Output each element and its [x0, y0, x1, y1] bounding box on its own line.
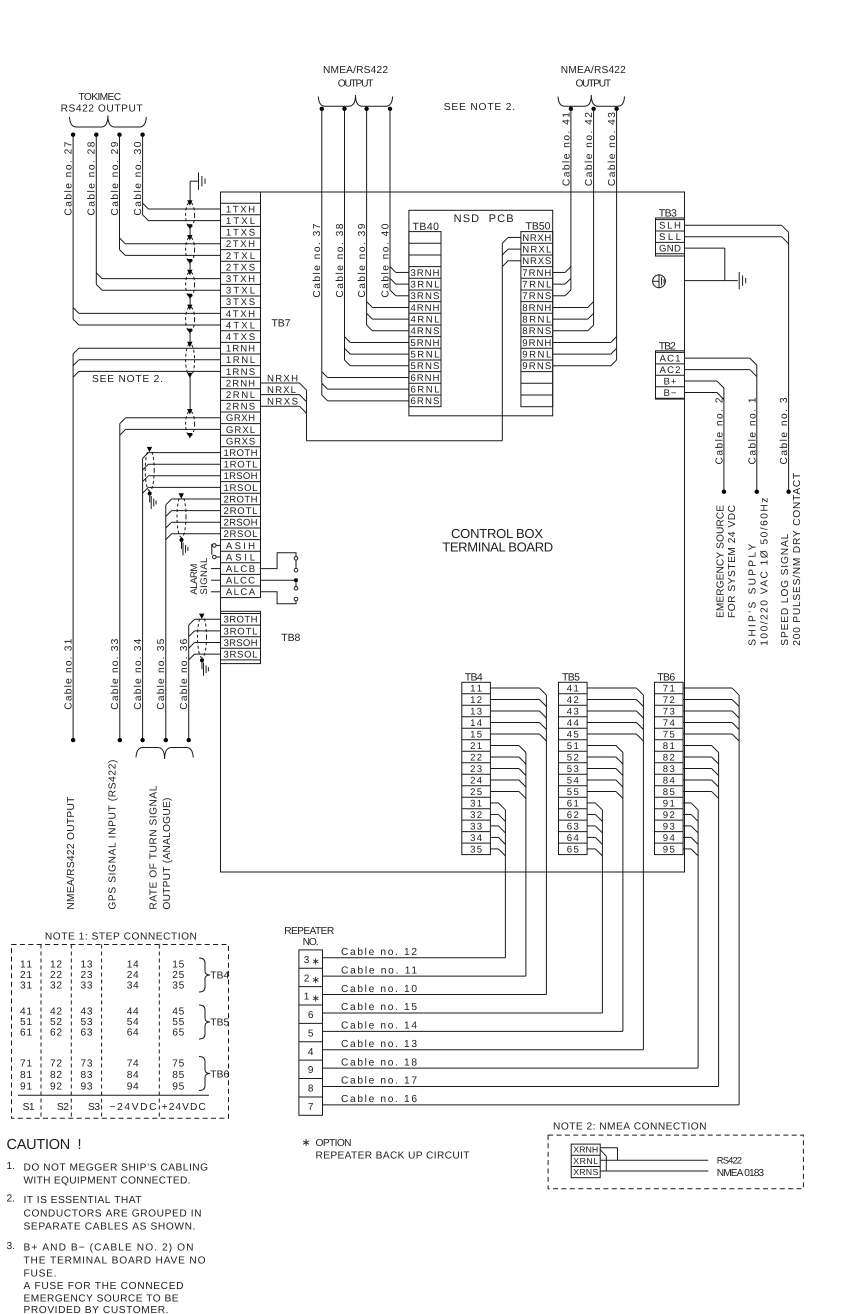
svg-text:83: 83: [81, 1070, 93, 1081]
svg-text:1RSOH: 1RSOH: [224, 471, 258, 482]
svg-text:3RSOH: 3RSOH: [224, 638, 258, 649]
svg-text:4RNL: 4RNL: [410, 315, 440, 326]
svg-text:TB5: TB5: [562, 671, 580, 683]
repeater terminal column: [299, 950, 323, 1115]
svg-text:FUSE.: FUSE.: [24, 1269, 57, 1280]
svg-text:54: 54: [127, 1017, 139, 1028]
svg-text:FOR SYSTEM 24 VDC: FOR SYSTEM 24 VDC: [727, 505, 738, 618]
svg-text:7RNL: 7RNL: [522, 280, 552, 291]
svg-text:NRXS: NRXS: [522, 256, 551, 267]
svg-text:Cable no. 31: Cable no. 31: [64, 638, 75, 709]
svg-text:6RNS: 6RNS: [410, 396, 439, 407]
svg-text:5RNL: 5RNL: [410, 350, 440, 361]
svg-text:21: 21: [20, 970, 32, 981]
terminal block TB5: [559, 682, 588, 855]
svg-text:35: 35: [172, 981, 184, 992]
cable no. 29 (to 2TXH/2TXL): [110, 133, 221, 256]
svg-text:33: 33: [470, 821, 482, 832]
terminal block TB4: [462, 682, 491, 855]
svg-text:2RNS: 2RNS: [226, 402, 255, 413]
svg-text:EMERGENCY SOURCE TO BE: EMERGENCY SOURCE TO BE: [24, 1294, 179, 1305]
svg-text:RS422: RS422: [717, 1154, 742, 1165]
svg-text:62: 62: [567, 810, 579, 821]
svg-text:9RNS: 9RNS: [522, 361, 551, 372]
svg-text:74: 74: [127, 1059, 139, 1070]
svg-text:REPEATER: REPEATER: [284, 926, 334, 937]
svg-text:XRNS: XRNS: [573, 1167, 598, 1177]
svg-text:1.: 1.: [7, 1161, 16, 1172]
svg-text:NOTE 2: NMEA CONNECTION: NOTE 2: NMEA CONNECTION: [553, 1122, 707, 1133]
cable no. 41 (to TB50 7RN group): [553, 107, 573, 296]
XRN terminal cells: [571, 1144, 600, 1178]
svg-text:XRNH: XRNH: [573, 1145, 598, 1155]
svg-text:∗: ∗: [302, 1137, 311, 1149]
svg-text:14: 14: [470, 718, 483, 729]
svg-text:55: 55: [567, 787, 579, 798]
svg-text:RATE OF TURN SIGNAL: RATE OF TURN SIGNAL: [149, 785, 160, 909]
terminal block TB2: [656, 351, 685, 399]
svg-text:95: 95: [172, 1082, 184, 1093]
svg-text:A FUSE FOR THE CONNECED: A FUSE FOR THE CONNECED: [24, 1281, 184, 1292]
svg-text:25: 25: [470, 787, 482, 798]
svg-text:54: 54: [567, 775, 580, 786]
label SPEED LOG SIGNAL 200 PULSES/NM DRY CONTACT: [780, 473, 803, 646]
svg-text:8RNL: 8RNL: [522, 315, 552, 326]
repeater cable lines with labels: [323, 947, 740, 1105]
cable no. 30 (to 1TXH/1TXL): [133, 133, 221, 221]
svg-text:1TXS: 1TXS: [226, 228, 255, 239]
svg-text:DO NOT MEGGER SHIP’S CABLING: DO NOT MEGGER SHIP’S CABLING: [24, 1163, 209, 1174]
label OPTION REPEATER BACK UP CIRCUIT: [302, 1137, 470, 1162]
svg-text:Cable no. 3: Cable no. 3: [779, 397, 790, 464]
svg-text:81: 81: [20, 1070, 32, 1081]
svg-text:32: 32: [50, 981, 62, 992]
label NMEA/RS422 OUTPUT (right): [561, 65, 626, 90]
TB5 group 41-45 wires to cable 13: [587, 688, 643, 1050]
svg-text:23: 23: [470, 764, 482, 775]
svg-text:92: 92: [663, 810, 675, 821]
ASIH/ASIL contact symbol: [212, 544, 221, 559]
svg-text:44: 44: [567, 718, 580, 729]
GND wire to ground: [685, 248, 746, 289]
svg-text:3: 3: [304, 955, 310, 966]
shield ellipses chain with drain wire: [186, 181, 195, 438]
svg-text:22: 22: [50, 970, 62, 981]
svg-text:S1: S1: [23, 1102, 35, 1113]
svg-text:1RNH: 1RNH: [226, 344, 255, 355]
svg-text:24: 24: [127, 970, 139, 981]
svg-text:35: 35: [470, 844, 482, 855]
svg-text:TB40: TB40: [413, 221, 440, 233]
terminal block TB3: [656, 218, 685, 256]
svg-text:1TXH: 1TXH: [226, 204, 255, 215]
svg-text:1RNS: 1RNS: [226, 367, 255, 378]
svg-text:52: 52: [50, 1017, 62, 1028]
svg-text:82: 82: [663, 752, 675, 763]
svg-text:4TXH: 4TXH: [226, 309, 255, 320]
svg-text:52: 52: [567, 752, 579, 763]
svg-text:34: 34: [470, 833, 483, 844]
svg-text:3RSOL: 3RSOL: [224, 650, 259, 661]
svg-text:51: 51: [20, 1017, 32, 1028]
svg-text:Cable no. 33: Cable no. 33: [110, 638, 121, 709]
svg-text:3.: 3.: [7, 1241, 16, 1252]
NMEA connection wires and labels: [600, 1148, 764, 1179]
brace over cables 41-43: [558, 95, 625, 106]
svg-text:ALCC: ALCC: [226, 576, 255, 587]
svg-text:CONDUCTORS ARE GROUPED IN: CONDUCTORS ARE GROUPED IN: [24, 1208, 202, 1219]
svg-text:1ROTH: 1ROTH: [224, 448, 258, 459]
brace over cables 37-40: [318, 95, 392, 106]
svg-text:13: 13: [81, 959, 93, 970]
svg-text:25: 25: [172, 970, 184, 981]
svg-text:65: 65: [567, 844, 579, 855]
svg-text:15: 15: [172, 959, 184, 970]
svg-text:94: 94: [663, 833, 676, 844]
svg-text:3RNH: 3RNH: [410, 268, 439, 279]
svg-text:2.: 2.: [7, 1194, 16, 1205]
cable no. 42 (to TB50 8RN group): [553, 107, 596, 331]
svg-text:Cable no. 1: Cable no. 1: [747, 397, 758, 464]
svg-text:SPEED LOG SIGNAL: SPEED LOG SIGNAL: [780, 533, 791, 645]
svg-text:42: 42: [567, 695, 579, 706]
svg-text:AC2: AC2: [660, 365, 681, 376]
svg-text:41: 41: [20, 1006, 32, 1017]
svg-text:64: 64: [127, 1028, 139, 1039]
svg-text:82: 82: [50, 1070, 62, 1081]
svg-text:5RNS: 5RNS: [410, 361, 439, 372]
svg-text:OUTPUT: OUTPUT: [575, 79, 611, 90]
cable no. 36 (from TB8 3ROTH..3RSOL): [179, 619, 220, 742]
svg-text:65: 65: [172, 1028, 184, 1039]
svg-text:2RSOH: 2RSOH: [224, 518, 258, 529]
svg-text:71: 71: [20, 1059, 32, 1070]
svg-text:GPS SIGNAL INPUT (RS422): GPS SIGNAL INPUT (RS422): [108, 760, 119, 910]
svg-text:7RNS: 7RNS: [522, 291, 551, 302]
brace under cables 34-36: [136, 748, 193, 760]
svg-text:B+: B+: [664, 376, 677, 387]
terminal block TB50: [521, 232, 553, 407]
svg-text:61: 61: [567, 798, 579, 809]
terminal block TB7: [221, 192, 261, 598]
svg-text:OPTION: OPTION: [316, 1138, 352, 1149]
cable no. 34 (from 1ROTH..1RSOL): [133, 453, 221, 743]
svg-text:TB5: TB5: [210, 1018, 229, 1029]
svg-text:GRXH: GRXH: [226, 413, 255, 424]
cable no. 39 (to TB40 4RN group): [357, 107, 409, 331]
svg-text:TERMINAL BOARD: TERMINAL BOARD: [442, 540, 553, 555]
svg-text:XRNL: XRNL: [573, 1156, 598, 1166]
label REPEATER NO.: [284, 926, 334, 948]
svg-text:45: 45: [567, 730, 579, 741]
svg-text:THE TERMINAL BOARD HAVE NO: THE TERMINAL BOARD HAVE NO: [24, 1256, 206, 1267]
cable no. 40 (to TB40 3RN group): [380, 107, 409, 298]
terminal block TB8: [221, 611, 261, 663]
svg-text:31: 31: [470, 798, 482, 809]
svg-text:NRXL: NRXL: [267, 385, 297, 396]
svg-text:∗: ∗: [312, 993, 320, 1004]
svg-text:62: 62: [50, 1028, 62, 1039]
svg-text:B+ AND B− (CABLE NO. 2) ON: B+ AND B− (CABLE NO. 2) ON: [24, 1243, 194, 1254]
svg-text:72: 72: [663, 695, 675, 706]
svg-text:TB4: TB4: [465, 671, 483, 683]
NOTE 2: NMEA CONNECTION box: [548, 1122, 803, 1189]
svg-text:5RNH: 5RNH: [410, 338, 439, 349]
TB4 group 11-15 wires to cable 10: [490, 688, 546, 995]
shield drain earth symbol (top): [190, 173, 205, 190]
shield ellipse + drain ground (3ROT group): [198, 614, 209, 676]
svg-text:73: 73: [81, 1059, 93, 1070]
terminal block TB6: [655, 682, 684, 855]
svg-text:74: 74: [663, 718, 676, 729]
svg-text:83: 83: [663, 764, 675, 775]
svg-text:ASIL: ASIL: [226, 552, 256, 563]
svg-text:+24VDC: +24VDC: [162, 1102, 206, 1113]
svg-text:6: 6: [308, 1010, 314, 1021]
svg-text:4TXS: 4TXS: [226, 332, 255, 343]
CAUTION notes text: [7, 1137, 209, 1314]
svg-text:3RNL: 3RNL: [410, 280, 440, 291]
svg-text:24: 24: [470, 775, 483, 786]
svg-text:NMEA/RS422: NMEA/RS422: [561, 65, 626, 76]
svg-text:2ROTH: 2ROTH: [224, 494, 258, 505]
cable no. 38 (to TB40 5RN group): [335, 107, 409, 366]
label ALARM SIGNAL (vertical): [189, 557, 210, 595]
TB6 group 81-85 wires to cable 17: [683, 745, 719, 1086]
svg-text:3ROTL: 3ROTL: [224, 626, 259, 637]
svg-text:TB6: TB6: [657, 671, 675, 683]
cable no. 35 (from 2ROTH..2RSOL): [156, 499, 220, 742]
svg-text:TB7: TB7: [272, 318, 291, 330]
svg-text:12: 12: [470, 695, 482, 706]
svg-text:SEE NOTE 2.: SEE NOTE 2.: [444, 102, 515, 113]
svg-text:93: 93: [81, 1082, 93, 1093]
svg-text:1RNL: 1RNL: [226, 355, 256, 366]
svg-text:TB50: TB50: [526, 221, 551, 233]
svg-text:CAUTION !: CAUTION !: [7, 1137, 82, 1153]
svg-text:2: 2: [304, 973, 310, 984]
svg-text:72: 72: [50, 1059, 62, 1070]
svg-text:4RNH: 4RNH: [410, 303, 439, 314]
svg-text:NRXH: NRXH: [522, 233, 551, 244]
svg-text:42: 42: [50, 1006, 62, 1017]
TB4 group 31-35 wires to cable 12: [490, 803, 505, 958]
svg-text:NRXH: NRXH: [267, 373, 298, 384]
AC1/AC2 wires to cable no. 1: [685, 358, 760, 494]
alarm relay contact chain (right of TB7): [261, 553, 299, 604]
svg-text:41: 41: [567, 684, 579, 695]
svg-text:NO.: NO.: [303, 937, 319, 948]
svg-text:IT IS ESSENTIAL THAT: IT IS ESSENTIAL THAT: [24, 1195, 142, 1206]
svg-text:TOKIMEC: TOKIMEC: [79, 92, 122, 103]
svg-text:53: 53: [81, 1017, 93, 1028]
svg-text:OUTPUT (ANALOGUE): OUTPUT (ANALOGUE): [162, 798, 173, 910]
NSD PCB board outline: [409, 210, 553, 415]
svg-text:15: 15: [470, 730, 482, 741]
svg-text:GRXS: GRXS: [226, 436, 255, 447]
svg-text:8RNH: 8RNH: [522, 303, 551, 314]
svg-text:4RNS: 4RNS: [410, 326, 439, 337]
svg-text:63: 63: [567, 821, 579, 832]
svg-text:3RNS: 3RNS: [410, 291, 439, 302]
TB4 group 21-25 wires to cable 11: [490, 745, 526, 976]
svg-text:7: 7: [308, 1102, 314, 1113]
svg-text:8: 8: [308, 1084, 314, 1095]
svg-text:3TXH: 3TXH: [226, 274, 255, 285]
B+/B- wires to cable no. 2: [685, 381, 727, 494]
svg-text:75: 75: [663, 730, 675, 741]
svg-text:91: 91: [20, 1082, 32, 1093]
label EMERGENCY SOURCE FOR SYSTEM 24 VDC: [715, 505, 738, 618]
svg-text:12: 12: [50, 959, 62, 970]
svg-text:6RNH: 6RNH: [410, 373, 439, 384]
svg-text:∗: ∗: [312, 975, 320, 986]
cable no. 43 (to TB50 9RN group): [553, 107, 619, 366]
svg-text:84: 84: [127, 1070, 139, 1081]
svg-text:92: 92: [50, 1082, 62, 1093]
svg-text:PROVIDED BY CUSTOMER.: PROVIDED BY CUSTOMER.: [24, 1305, 169, 1314]
svg-text:3TXS: 3TXS: [226, 297, 255, 308]
TB6 group 71-75 wires to cable 16: [683, 688, 739, 1105]
svg-text:91: 91: [663, 798, 675, 809]
label NMEA/RS422 OUTPUT (middle): [323, 65, 388, 90]
svg-text:NOTE 1: STEP CONNECTION: NOTE 1: STEP CONNECTION: [45, 931, 197, 942]
svg-text:71: 71: [663, 684, 675, 695]
svg-text:TB8: TB8: [281, 632, 300, 644]
svg-text:Cable no. 34: Cable no. 34: [133, 638, 144, 709]
cable no. 27 (to 4TXH/4TXL): [64, 133, 221, 326]
svg-text:11: 11: [470, 684, 482, 695]
svg-text:ALCA: ALCA: [226, 587, 256, 598]
svg-text:14: 14: [127, 959, 139, 970]
svg-text:53: 53: [567, 764, 579, 775]
svg-text:ALCB: ALCB: [226, 564, 255, 575]
svg-text:2RNL: 2RNL: [226, 390, 256, 401]
svg-text:AC1: AC1: [660, 354, 681, 365]
svg-text:23: 23: [81, 970, 93, 981]
terminal block TB40: [409, 232, 441, 408]
svg-text:∗: ∗: [312, 957, 320, 968]
svg-text:32: 32: [470, 810, 482, 821]
svg-text:NRXL: NRXL: [522, 245, 552, 256]
svg-text:85: 85: [663, 787, 675, 798]
brace over cables 27-30: [70, 116, 147, 128]
label CONTROL BOX TERMINAL BOARD: [442, 526, 553, 555]
SLH/SLL wires to cable no. 3: [685, 225, 791, 494]
svg-text:4: 4: [308, 1047, 314, 1058]
svg-text:11: 11: [20, 959, 32, 970]
svg-text:61: 61: [20, 1028, 32, 1039]
svg-text:NSD PCB: NSD PCB: [454, 213, 514, 225]
svg-text:94: 94: [127, 1082, 139, 1093]
svg-text:4TXL: 4TXL: [226, 320, 256, 331]
svg-text:51: 51: [567, 741, 579, 752]
svg-text:33: 33: [81, 981, 93, 992]
svg-text:93: 93: [663, 821, 675, 832]
label SHIP'S SUPPLY 100/220 VAC: [748, 498, 771, 646]
circled earth symbol: [653, 274, 666, 288]
label TOKIMEC RS422 OUTPUT: [61, 92, 143, 115]
svg-text:Cable no. 2: Cable no. 2: [715, 397, 726, 464]
svg-text:2ROTL: 2ROTL: [224, 506, 259, 517]
svg-text:OUTPUT: OUTPUT: [338, 79, 374, 90]
cable no. 37 (to TB40 6RN group): [312, 107, 409, 401]
svg-text:6RNL: 6RNL: [410, 385, 440, 396]
svg-text:SLH: SLH: [659, 221, 681, 232]
svg-text:84: 84: [663, 775, 676, 786]
svg-text:GND: GND: [659, 244, 681, 255]
svg-text:−24VDC: −24VDC: [110, 1102, 157, 1113]
TB6 group 91-95 wires to cable 18: [683, 803, 698, 1068]
svg-text:ASIH: ASIH: [226, 541, 255, 552]
ALCB/ALCC/ALCA left stubs: [211, 569, 221, 592]
svg-text:TB4: TB4: [210, 971, 229, 982]
cable no. 31 (from 1RNH/1RNL/1RNS): [64, 348, 221, 742]
svg-text:7RNH: 7RNH: [522, 268, 551, 279]
NRX cable wires 2RNH/2RNL/2RNS to TB50 NRXH/NRXL/NRXS: [261, 237, 521, 440]
svg-text:3ROTH: 3ROTH: [224, 615, 258, 626]
label RATE OF TURN SIGNAL OUTPUT (ANALOGUE) (vertical): [149, 785, 173, 909]
svg-text:NMEA/RS422: NMEA/RS422: [323, 65, 388, 76]
svg-text:2TXH: 2TXH: [226, 239, 255, 250]
svg-text:EMERGENCY SOURCE: EMERGENCY SOURCE: [715, 505, 726, 618]
svg-text:81: 81: [663, 741, 675, 752]
svg-text:SLL: SLL: [659, 232, 682, 243]
control box outline: [221, 192, 685, 872]
cable no. 28 (to 3TXH/3TXL): [87, 133, 221, 291]
svg-text:9: 9: [308, 1065, 314, 1076]
svg-text:34: 34: [127, 981, 139, 992]
svg-text:55: 55: [172, 1017, 184, 1028]
svg-text:43: 43: [81, 1006, 93, 1017]
svg-text:SEE NOTE 2.: SEE NOTE 2.: [92, 374, 163, 385]
svg-text:2RNH: 2RNH: [226, 378, 255, 389]
svg-text:B−: B−: [664, 388, 677, 399]
TB5 group 61-65 wires to cable 15: [587, 803, 602, 1013]
svg-text:TB3: TB3: [659, 207, 677, 219]
svg-text:5: 5: [308, 1028, 314, 1039]
svg-text:64: 64: [567, 833, 580, 844]
svg-text:S3: S3: [88, 1102, 100, 1113]
svg-text:95: 95: [663, 844, 675, 855]
svg-text:NMEA/RS422 OUTPUT: NMEA/RS422 OUTPUT: [66, 797, 77, 910]
svg-text:43: 43: [567, 707, 579, 718]
svg-text:1RSOL: 1RSOL: [224, 483, 259, 494]
svg-text:8RNS: 8RNS: [522, 326, 551, 337]
svg-text:S2: S2: [57, 1102, 69, 1113]
svg-text:1ROTL: 1ROTL: [224, 460, 259, 471]
svg-text:SEPARATE CABLES AS SHOWN.: SEPARATE CABLES AS SHOWN.: [24, 1221, 196, 1232]
svg-text:TB2: TB2: [659, 340, 676, 352]
TB5 group 51-55 wires to cable 14: [587, 745, 623, 1031]
shield ellipse + drain ground (2ROT group): [177, 493, 188, 555]
svg-text:TB6: TB6: [210, 1070, 229, 1081]
svg-text:9RNH: 9RNH: [522, 338, 551, 349]
svg-text:73: 73: [663, 707, 675, 718]
svg-text:9RNL: 9RNL: [522, 350, 552, 361]
svg-text:WITH EQUIPMENT CONNECTED.: WITH EQUIPMENT CONNECTED.: [24, 1176, 191, 1187]
svg-text:2RSOL: 2RSOL: [224, 529, 259, 540]
svg-text:1TXL: 1TXL: [226, 216, 256, 227]
svg-text:2TXL: 2TXL: [226, 251, 256, 262]
svg-text:1: 1: [304, 992, 310, 1003]
svg-text:85: 85: [172, 1070, 184, 1081]
svg-text:22: 22: [470, 752, 482, 763]
svg-text:RS422 OUTPUT: RS422 OUTPUT: [61, 104, 143, 115]
svg-text:REPEATER BACK UP CIRCUIT: REPEATER BACK UP CIRCUIT: [316, 1151, 470, 1162]
svg-text:2TXS: 2TXS: [226, 262, 255, 273]
svg-text:200 PULSES/NM DRY CONTACT: 200 PULSES/NM DRY CONTACT: [792, 473, 803, 646]
